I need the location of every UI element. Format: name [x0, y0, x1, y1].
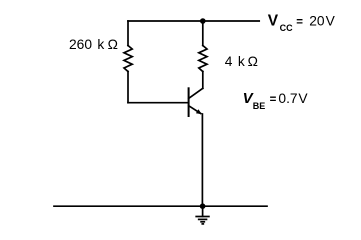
- wire: left branch vertical down to R1: [127, 21, 129, 46]
- node: top junction dot: [200, 18, 206, 24]
- svg-text:BE: BE: [253, 101, 266, 111]
- wire: right branch from top junction down to R2: [202, 21, 204, 46]
- wire: top rail from left corner to VCC label: [128, 20, 259, 22]
- wire: base wire to transistor: [128, 102, 189, 104]
- wire: emitter down to ground rail: [201, 114, 203, 206]
- resistor R2 4 kOhm zigzag: [199, 46, 207, 72]
- transistor Q1 base bar: [188, 88, 190, 116]
- label: Vbe = 0.7 V annotation: [243, 90, 309, 111]
- svg-text:20V: 20V: [309, 14, 335, 29]
- svg-text:=: =: [296, 16, 303, 28]
- resistor R1 260 kOhm zigzag: [124, 46, 132, 72]
- svg-text:0.7V: 0.7V: [278, 91, 308, 106]
- ground symbol: [196, 217, 209, 224]
- wire: stub from bottom junction to ground symbol: [202, 206, 204, 216]
- svg-text:V: V: [268, 12, 279, 29]
- wire: R2 bottom lead down to collector: [202, 72, 204, 89]
- label: Vcc = 20 V supply annotation: [268, 12, 336, 33]
- wire: R1 bottom lead down to base wire: [127, 72, 129, 103]
- transistor Q1 collector lead: [189, 88, 203, 98]
- svg-text:4kΩ: 4kΩ: [225, 54, 258, 69]
- svg-text:CC: CC: [280, 23, 293, 33]
- transistor Q1 emitter arrowhead: [196, 109, 202, 114]
- node: bottom junction dot: [200, 203, 206, 209]
- wire: bottom ground rail: [54, 205, 267, 207]
- svg-text:=: =: [270, 94, 277, 106]
- transistor Q1 emitter lead: [189, 106, 201, 114]
